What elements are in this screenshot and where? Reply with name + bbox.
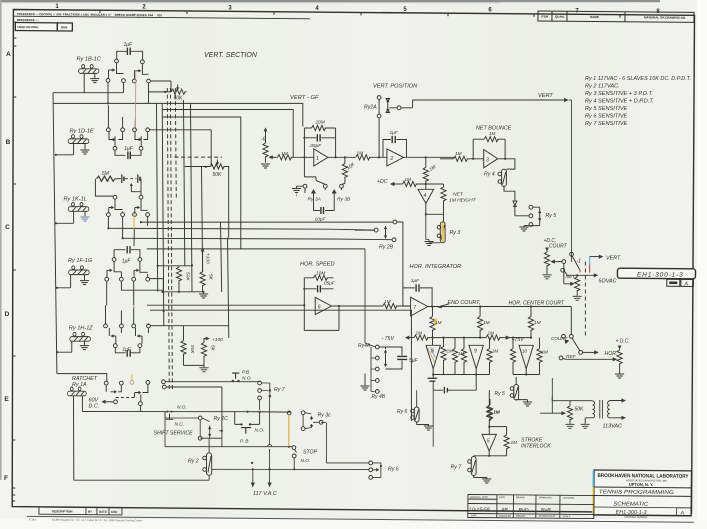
svg-text:DATE: DATE [99,510,107,514]
capacitor (y390 polarized) [444,387,476,394]
svg-text:Ry4A: Ry4A [358,343,371,349]
wire: dashed horizontal row [175,156,223,158]
svg-text:1M: 1M [281,151,288,157]
capacitor (op8 output polarized) [428,378,444,390]
label Ry6 (bottom contacts) [388,467,399,473]
op-amp 9 (down) [469,345,483,390]
svg-text:DATE: DATE [471,514,477,517]
label 117 V.A.C [253,491,277,497]
pot pair1 5K [200,247,205,293]
svg-text:VERT - GF: VERT - GF [290,95,319,101]
resistor 1M (op6-op7) [383,303,411,308]
svg-text:QUAN.: QUAN. [555,15,565,19]
label 1M (net bounce) [489,131,496,136]
svg-text:RvD: RvD [518,507,528,513]
op-amp 5 (down) [474,427,507,457]
label 1M (x480) [483,320,490,326]
junction dots op6 [303,288,340,307]
label Ry2B [379,245,394,251]
label Ry2C [214,416,229,422]
label 1M (yellow) [435,320,442,326]
label NET [566,274,577,280]
svg-text:Ry 1D-1E: Ry 1D-1E [70,129,95,135]
colored wire cyan/red to VERT arrow [589,257,591,273]
label +75V [512,337,525,343]
capacitor 1uF (row2) [115,150,141,159]
left ruler letters [4,51,11,482]
svg-text:Ry 2: Ry 2 [188,459,199,465]
ground (Ry3) [425,214,441,245]
ground (Ry7 pill) [483,479,491,483]
relay contacts row3 [107,195,150,238]
svg-text:Ry 7: Ry 7 [451,465,463,471]
svg-text:USED ON DWG.: USED ON DWG. [17,25,39,29]
relay Ry1B-1C coil [79,65,99,93]
wire yellow tinted (row3 down) [133,214,135,229]
svg-text:4: 4 [424,193,427,199]
svg-text:1μF: 1μF [390,130,399,136]
ground (transformer) [581,424,589,428]
svg-text:-6: -6 [261,137,266,143]
title block [592,470,691,519]
label END COURT with leader [448,300,481,306]
pot pair1 50K vertical [176,266,181,292]
label NET BOUNCE [476,126,512,132]
label Ry5 (mid) [495,391,506,397]
svg-text:50K: 50K [185,272,191,281]
svg-text:8: 8 [431,349,434,355]
svg-text:Ry 3 SENSITIVE + 3 P.D.T.: Ry 3 SENSITIVE + 3 P.D.T. [585,91,653,97]
wires row4 below [107,272,164,305]
resistor 10M (op6) [304,275,333,280]
svg-text:Ry 7 SENSITIVE: Ry 7 SENSITIVE [585,121,628,127]
svg-text:K 144: K 144 [29,517,36,521]
svg-text:1μF: 1μF [122,258,132,264]
svg-text:Ry 1 117VAC - 6 SLAVES 10K DC: Ry 1 117VAC - 6 SLAVES 10K DC. D.P.D.T. [585,76,691,82]
junction dot op5 out [488,455,490,457]
ground (-6 pot) [261,164,269,168]
ground (pair1) [199,294,207,298]
label 60V D.C. [89,398,100,410]
resistor 1M (right of op9) [476,338,492,375]
junction dots op2 [378,156,427,158]
label 113VAC [603,424,622,430]
junction dots op1 [303,137,346,159]
label 10 (op10) [522,349,528,354]
label +D.C. COURT [544,238,568,250]
svg-text:Ry 3B: Ry 3B [337,197,351,203]
wire red tinted (row1 down) [135,72,137,130]
resistor NET HEIGHT 1M [426,184,446,214]
label 1uF (row2) [124,146,134,152]
wire VERT main run [413,98,569,108]
label .05uF [309,143,322,149]
svg-text:1M: 1M [493,410,500,416]
label -1 [577,259,582,265]
ground (50K pot) [566,424,574,428]
svg-text:ATTENTION OF: ATTENTION OF [539,515,556,518]
pot NET [575,275,580,296]
red dot row5 [133,306,135,309]
label Ry4A [358,343,371,349]
svg-text:1M: 1M [488,331,495,336]
label 1uF (row4) [122,258,132,264]
label 7 (op7) [413,305,416,311]
label Ry6 (pill) [397,409,408,415]
resistor 1M (interlock top) [487,390,492,426]
label Ry4B [372,394,386,400]
svg-text:VERT. POSITION: VERT. POSITION [373,84,418,90]
svg-text:1M: 1M [455,151,462,157]
relay Ry1D-1E coil [56,135,89,155]
svg-text:+DC: +DC [377,179,388,185]
svg-text:A: A [6,51,11,58]
svg-text:NAME: NAME [590,15,599,19]
svg-text:50K: 50K [213,172,223,178]
relay Ry1A coil [68,387,87,480]
label 50K no.1 [174,96,184,102]
relay Ry1F-1G label [68,258,93,264]
junction dots on buses [55,91,207,354]
svg-text:Ry 5: Ry 5 [546,213,557,219]
label Ry7 (mid contacts) [274,387,286,393]
relay Ry1K-1L label [64,197,87,203]
svg-text:1M: 1M [384,299,391,305]
arrow 60V DC [101,400,117,404]
wire row3 to row4 [133,229,135,246]
resistor 1M below end court (yellow hl) [430,307,435,338]
label 1M (-75V res) [416,331,423,336]
svg-text:50K: 50K [189,345,195,354]
junction dots interlock [488,426,490,428]
svg-text:REFERENCE —: REFERENCE — [17,18,39,22]
label Ry7 (pill) [451,465,463,471]
red tick ground Ry3A [296,193,298,197]
junction dots op8 [432,337,445,376]
svg-text:VERT. SECTION: VERT. SECTION [204,52,258,59]
capacitor .05uF (op6) [304,285,333,292]
label 8 (op8) [431,349,434,355]
relay Ry1B-1C label [77,57,102,63]
svg-text:A: A [680,510,685,516]
resistor .1M to +DC [390,181,444,186]
label Ry4 [484,171,495,177]
color streaks op8 [428,348,436,363]
wire yellow (stop feed) [288,415,290,447]
label VERT. (mid) [606,255,621,261]
svg-text:1μF: 1μF [411,278,420,284]
relay Ry2C contacts [165,412,222,441]
svg-text:CHECKED: CHECKED [563,498,575,500]
svg-text:1M: 1M [357,151,364,157]
svg-text:Ry 1F-1G: Ry 1F-1G [68,258,93,264]
junction dot 269 [252,468,296,470]
resistor 1M (pair op8-op9) [452,338,457,375]
label 1M (x531) [534,320,541,326]
label .5M [101,171,110,177]
ground (Ry6 pill) [424,426,432,430]
label +100 (vertical) [205,253,211,264]
svg-text:Ry 3A: Ry 3A [308,197,321,203]
diode [504,187,529,216]
svg-text:Ry 2 117VAC.: Ry 2 117VAC. [585,84,620,90]
relay switch Ry2B [355,220,411,306]
svg-text:5K: 5K [208,274,214,281]
top ruler ticks [100,10,620,18]
op-amp 2 [387,149,455,166]
switch STOP [292,446,297,470]
wire yellow above red circle [131,375,133,381]
label 6 (op6) [318,305,321,311]
svg-text:F: F [4,475,8,482]
svg-text:D: D [5,311,10,318]
label 50K (pair1, rotated) [185,272,191,281]
resistor 1M (op3 feedback) [473,137,505,159]
scan edge top [0,0,660,3]
label .1M (vertical) [427,164,437,174]
circle red tinted ratchet [130,381,134,385]
svg-text:Ry 7: Ry 7 [274,387,286,393]
wire bus to ratchet contacts [57,374,107,382]
label 1M (op1-op2) [357,151,364,157]
label 1M (op8 right) [447,349,454,354]
svg-text:Ry 4B: Ry 4B [372,394,386,400]
ground (court pot) [615,374,623,378]
svg-text:INTERLOCK: INTERLOCK [521,444,551,450]
resistor 1M (left of op9) [455,338,476,375]
relay contacts Ry4A [365,249,387,371]
relay Ry4 pill [498,169,506,186]
label 1uF (op2) [390,130,399,136]
battery cells [115,174,141,195]
svg-text:HOR. SPEED: HOR. SPEED [300,262,335,268]
colored scan stripe at title block left [592,470,593,487]
dashed link 50vac-court [584,262,586,337]
label 10M [316,120,325,126]
svg-text:10M: 10M [316,120,325,126]
ground (Ry1B-1C) [91,79,99,83]
label 4 (op4) [424,193,427,199]
relay Ry1K-1L coil [56,203,89,224]
svg-text:TRACED: TRACED [516,515,526,518]
label HOR. SPEED [300,262,335,268]
svg-text:+ D.C.: + D.C. [616,339,630,345]
svg-text:AB: AB [500,507,509,513]
junction dots op4 [425,183,427,216]
op-amp 10 (down) [519,345,533,374]
svg-text:BY: BY [88,510,92,514]
svg-text:-1: -1 [577,259,582,265]
svg-text:.1M: .1M [403,177,411,183]
svg-text:Ry 4 SENSITIVE + D.P.D.T.: Ry 4 SENSITIVE + D.P.D.T. [585,99,654,105]
yellow highlight 1M [434,319,437,326]
svg-text:N.O.: N.O. [255,428,265,434]
svg-text:SHIFT SERVICE: SHIFT SERVICE [154,431,194,437]
relay Ry1D-1E label [70,129,95,135]
svg-text:1: 1 [316,156,319,162]
svg-text:VERT.: VERT. [606,255,621,261]
resistor 1M (right of op8) [433,338,455,375]
svg-text:.05μF: .05μF [309,143,322,149]
label 9 (op9) [474,349,477,355]
svg-text:Ry 2B: Ry 2B [379,245,394,251]
dashed wire between ratchet cells [116,397,137,399]
wire long y446.7 [165,412,293,447]
svg-text:1M: 1M [447,349,454,354]
wire 50VAC with arrow [567,273,598,277]
drawing number stamp box [617,268,695,287]
ratchet contacts [104,380,166,412]
svg-text:1μF: 1μF [122,347,132,353]
capacitor 1uF (row4 top) [114,246,140,258]
svg-text:50K: 50K [174,96,184,102]
pot 50K no.1 [148,81,187,94]
label SHIFT SERVICE [154,431,194,437]
svg-text:UPTON, N. Y.: UPTON, N. Y. [629,482,654,487]
svg-text:Ry2A: Ry2A [364,105,377,111]
resistor .1M vertical [423,157,428,184]
svg-text:Ry 5 SENSITIVE: Ry 5 SENSITIVE [585,106,628,112]
wire: bundle horizontals to hor section [147,249,412,421]
junction dot net pot [576,274,578,276]
svg-text:EH1-300-1-3: EH1-300-1-3 [637,272,684,279]
svg-text:5096: 5096 [61,25,68,29]
svg-text:MATERIAL OR DRAWING NO.: MATERIAL OR DRAWING NO. [644,15,686,19]
svg-text:Ry 1H-1Z: Ry 1H-1Z [69,326,94,332]
capacitor 1uF (op2) [383,136,407,157]
label +100 (pair2) [212,337,223,343]
label 5K (pair2, rotated) [210,345,216,352]
label .1M (horizontal) [403,177,411,183]
capacitor .05uF (op1 feedback) [304,134,335,141]
wire -75V rail to op8 [433,338,481,346]
ground (Ry5) [520,227,528,231]
resistor 1M (left of op10) [510,338,526,375]
svg-text:RvB: RvB [541,508,551,514]
junction dots bottom [221,411,290,464]
relay Ry5 pill (mid) [510,377,527,402]
label 50K no.2 [213,172,223,178]
labels STOP N.O. [303,449,318,455]
svg-text:C: C [5,224,10,231]
relay Ry1H-1Z label [69,326,94,332]
label 1uF (row5) [122,347,132,353]
label N.O. (left) [177,405,187,411]
capacitor 1uF (op7) [403,284,432,306]
label 1M (op6-op7) [384,299,391,305]
resistor 1M (-75V) [405,335,433,340]
svg-text:COURT: COURT [549,243,568,249]
op-amp 8 (down) with color marks [426,345,440,378]
ground (+DC COURT pot) [543,275,551,279]
pot 50K no.2 [185,160,229,238]
wire red tinted (row2) [134,119,137,128]
relay Ry1H-1Z coil [57,332,90,352]
svg-text:MATERIAL APPD.: MATERIAL APPD. [470,496,489,499]
resistor 10K vertical [342,157,347,183]
svg-text:10: 10 [522,349,528,354]
label +DC with arrow [377,179,388,185]
wire service selector arrows [219,430,222,432]
left ruler ticks [12,22,16,501]
svg-text:B: B [6,139,11,146]
wire: bundle horizontals upper [54,103,303,249]
svg-text:.5M: .5M [101,171,110,177]
label HOR. INTEGRATOR [410,264,462,270]
svg-text:- 75V: - 75V [382,336,395,342]
svg-text:END COURT,: END COURT, [448,300,481,306]
capacitor 1uF (row1) [117,48,143,60]
svg-text:N.O.: N.O. [242,375,252,381]
transformer 50K pot [540,405,573,424]
relay Ry7 pill [468,457,487,479]
relay Ry3 pill with yellow stripe [437,214,445,243]
svg-text:DATE: DATE [499,496,505,499]
capacitor 10uF [314,207,335,214]
wire Ry2A to op2 input [378,100,380,158]
svg-text:Ry 4: Ry 4 [484,171,495,177]
svg-text:N.C.: N.C. [175,422,185,428]
svg-text:Ry 3: Ry 3 [450,230,461,236]
ground (Ry5 mid) [523,402,531,406]
svg-text:1M: 1M [435,320,442,326]
resistor 1M (op1-op2) [356,155,387,160]
label 2 (op2) [390,156,394,162]
capacitor 5uF [386,347,408,369]
op-amp 7 [411,297,572,334]
resistor 1M below (x531) [528,307,533,338]
label 1uF (row1) [124,42,134,48]
svg-text:DESCRIPTION: DESCRIPTION [52,509,73,513]
label 10uF [315,216,327,222]
resistor 1M (interlock right) [504,435,509,449]
label 1M (op3 input) [455,151,462,157]
svg-text:Ry 6: Ry 6 [388,467,399,473]
label -75V arrow [382,336,395,342]
label Ry3c [318,413,332,419]
svg-text:Ry 2C: Ry 2C [214,416,229,422]
svg-text:1μF: 1μF [124,146,134,152]
relay Ry2 pill [74,438,214,480]
junction dots op7 [431,305,532,338]
svg-text:3: 3 [486,157,489,163]
pot -6 [263,132,276,163]
resistor .5M [95,176,115,196]
ground (Ry1F-1G) [80,281,88,285]
pot +DC (right) [617,346,622,374]
pushbutton PB (mid) [235,412,260,434]
svg-text:TENNIS PROGRAMMING: TENNIS PROGRAMMING [599,489,674,496]
svg-text:D.C.: D.C. [89,404,100,410]
resistor 1M (op1 input) [276,155,314,160]
label 1M (pair) [458,351,465,356]
svg-text:N.O.: N.O. [177,405,187,411]
label 1M (interlock top) [493,410,500,416]
svg-text:1M: 1M [542,350,549,355]
wire: bus dashed verticals [167,88,176,390]
wire ratchet row to right [82,382,290,431]
label REF [566,354,577,360]
label 50K (pair2, rotated) [189,345,195,354]
relay contacts Ry3c [301,411,323,431]
revision strip bottom-left [27,507,694,527]
op-amp 1 [304,128,355,177]
yellow stripe Ry3 [442,223,444,243]
ground (NET pot) [573,296,581,300]
svg-text:HOR. INTEGRATOR: HOR. INTEGRATOR [410,264,462,270]
label 1 (op1) [316,156,319,162]
pot pair2 50K vertical [181,326,204,366]
